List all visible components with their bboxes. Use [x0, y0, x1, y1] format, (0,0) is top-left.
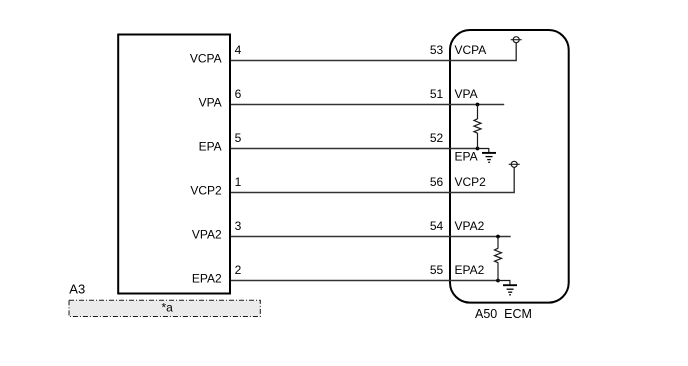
wire VCP2 (pin 1 to pin 56)	[231, 168, 514, 193]
svg-text:VCPA: VCPA	[190, 52, 222, 66]
wire VPA (pin 6 to pin 51)	[231, 104, 504, 106]
junction dot VPA	[476, 103, 480, 107]
svg-text:52: 52	[430, 131, 444, 145]
svg-text:VCP2: VCP2	[455, 175, 487, 189]
svg-text:54: 54	[430, 219, 444, 233]
svg-text:VPA: VPA	[455, 87, 478, 101]
resistor R1 (VPA to EPA)	[474, 105, 481, 149]
svg-text:EPA2: EPA2	[455, 263, 485, 277]
ECM box A50	[450, 30, 569, 303]
junction dot EPA2	[496, 279, 500, 283]
wire VPA2 (pin 3 to pin 54)	[231, 236, 511, 238]
svg-text:VCPA: VCPA	[455, 43, 487, 57]
junction dot EPA	[476, 147, 480, 151]
terminal T1 (VCPA)	[511, 37, 522, 43]
svg-text:56: 56	[430, 175, 444, 189]
wire VCPA (pin 4 to pin 53)	[231, 43, 516, 61]
resistor R2 (VPA2 to EPA2)	[495, 237, 502, 281]
ground G1 (EPA)	[478, 149, 497, 163]
svg-text:*a: *a	[162, 301, 174, 315]
svg-text:55: 55	[430, 263, 444, 277]
svg-text:53: 53	[430, 43, 444, 57]
svg-text:6: 6	[235, 87, 242, 101]
svg-text:A50 ECM: A50 ECM	[475, 307, 532, 321]
terminal T2 (VCP2)	[509, 161, 520, 167]
shield box *a	[69, 300, 260, 316]
connector A3 box	[118, 35, 230, 294]
svg-text:51: 51	[430, 87, 444, 101]
svg-text:VPA: VPA	[199, 95, 222, 109]
svg-text:EPA: EPA	[455, 150, 478, 164]
junction dot VPA2	[496, 235, 500, 239]
svg-text:EPA: EPA	[199, 140, 222, 154]
wire EPA2 (pin 2 to pin 55)	[231, 280, 498, 282]
svg-text:2: 2	[235, 263, 242, 277]
svg-text:VPA2: VPA2	[455, 219, 485, 233]
svg-text:VPA2: VPA2	[192, 228, 222, 242]
svg-text:3: 3	[235, 219, 242, 233]
svg-text:5: 5	[235, 131, 242, 145]
ground G2 (EPA2)	[498, 281, 517, 295]
svg-text:VCP2: VCP2	[190, 184, 222, 198]
svg-text:1: 1	[235, 175, 242, 189]
svg-text:4: 4	[235, 43, 242, 57]
wire EPA (pin 5 to pin 52)	[231, 148, 478, 150]
svg-text:A3: A3	[69, 282, 85, 297]
svg-text:EPA2: EPA2	[192, 272, 222, 286]
